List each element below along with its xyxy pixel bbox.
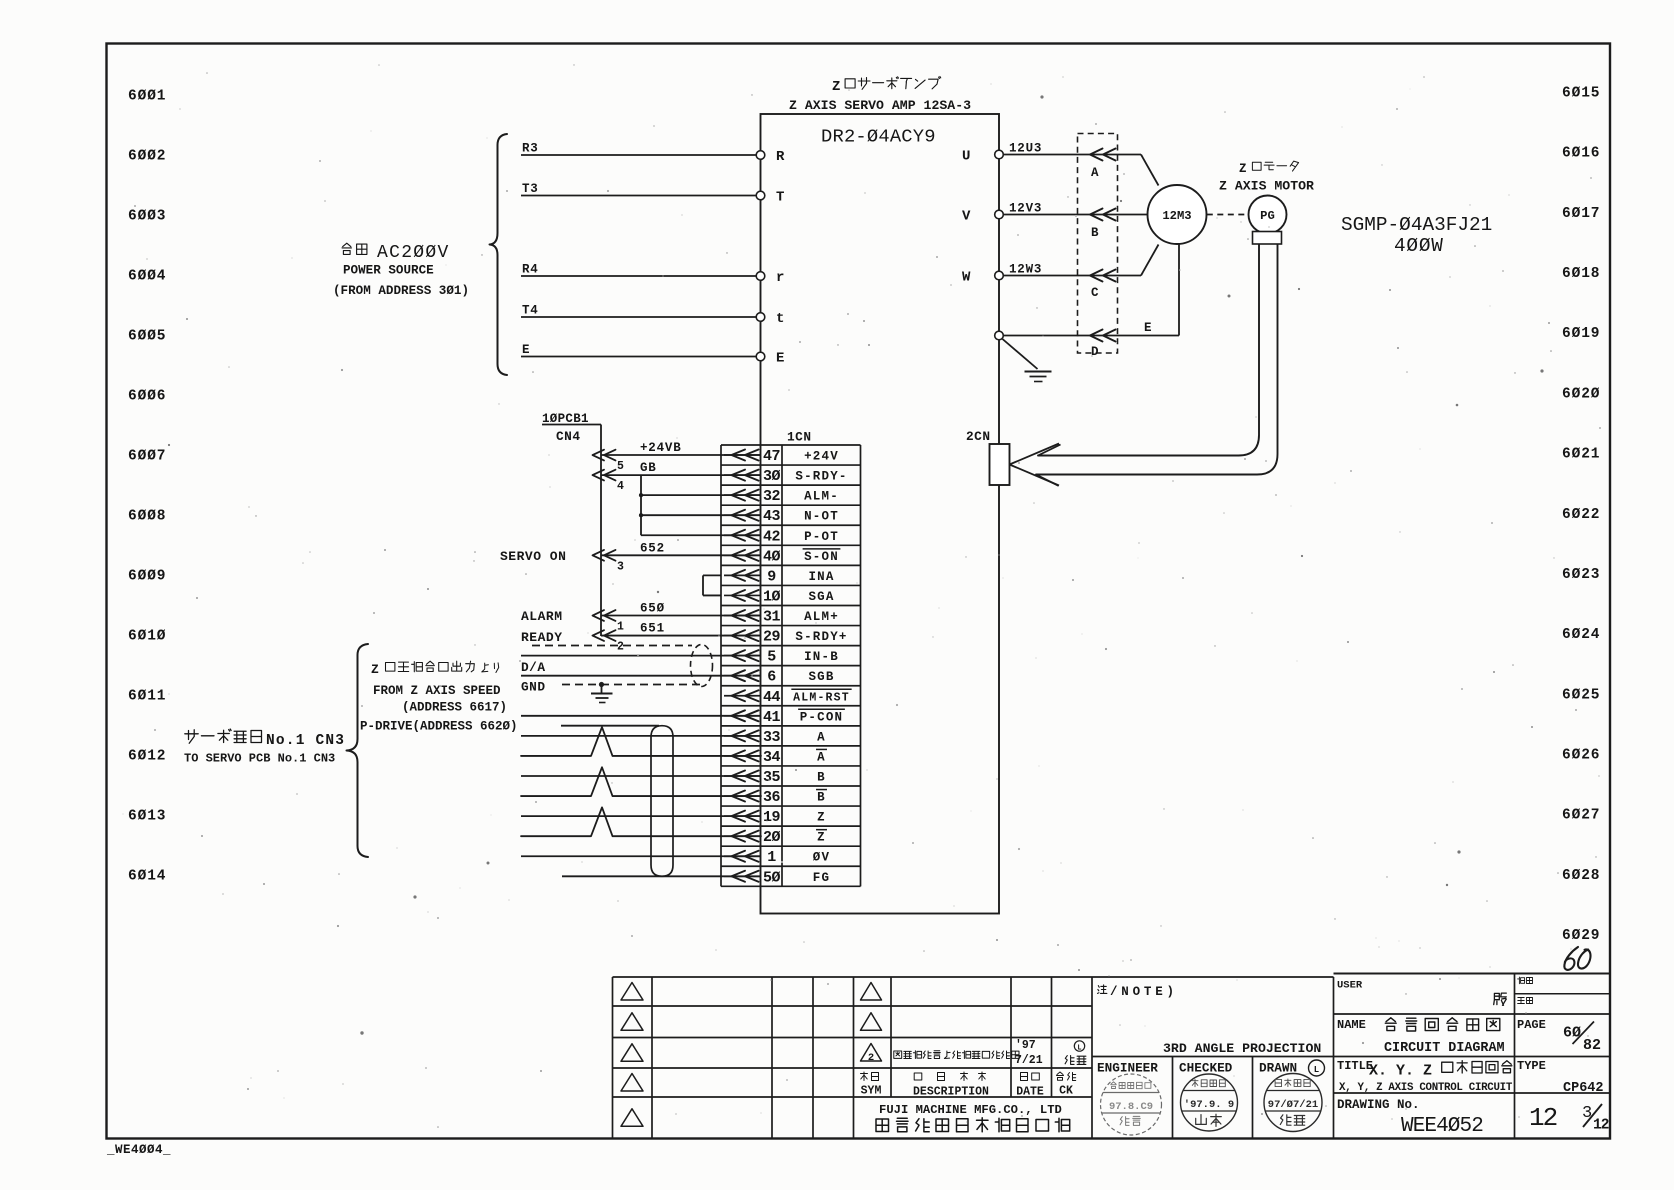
svg-text:R3: R3	[522, 142, 539, 156]
svg-text:No.1 CN3: No.1 CN3	[266, 733, 345, 749]
svg-text:6Ø23: 6Ø23	[1562, 567, 1600, 583]
svg-text:6Ø24: 6Ø24	[1562, 627, 1600, 643]
svg-text:5: 5	[617, 460, 624, 473]
svg-text:Z AXIS MOTOR: Z AXIS MOTOR	[1219, 179, 1314, 194]
svg-text:6Ø17: 6Ø17	[1562, 206, 1600, 222]
svg-text:6Ø16: 6Ø16	[1562, 146, 1600, 162]
svg-text:6Ø13: 6Ø13	[128, 809, 166, 825]
svg-text:651: 651	[640, 622, 665, 636]
svg-text:Z: Z	[817, 811, 826, 825]
svg-text:'97.9. 9: '97.9. 9	[1184, 1099, 1234, 1111]
svg-text:6ØØ3: 6ØØ3	[128, 209, 166, 225]
svg-text:T4: T4	[522, 304, 539, 318]
svg-text:TITLE: TITLE	[1337, 1059, 1373, 1073]
svg-text:A: A	[1091, 166, 1099, 180]
svg-text:/NOTE): /NOTE)	[1110, 985, 1178, 999]
svg-text:12W3: 12W3	[1009, 263, 1042, 277]
svg-text:12: 12	[1593, 1118, 1609, 1134]
svg-text:32: 32	[763, 488, 781, 505]
svg-text:S-RDY+: S-RDY+	[795, 630, 847, 644]
svg-text:97/Ø7/21: 97/Ø7/21	[1268, 1099, 1318, 1111]
svg-text:PAGE: PAGE	[1517, 1018, 1546, 1032]
svg-text:SYM: SYM	[861, 1085, 882, 1098]
svg-text:6Ø25: 6Ø25	[1562, 687, 1600, 703]
svg-text:97.8.C9: 97.8.C9	[1109, 1101, 1153, 1113]
svg-text:43: 43	[763, 508, 781, 525]
svg-text:6Ø18: 6Ø18	[1562, 266, 1600, 282]
svg-text:31: 31	[763, 609, 781, 626]
svg-text:9: 9	[767, 568, 776, 585]
svg-text:5: 5	[767, 649, 776, 666]
svg-text:47: 47	[763, 448, 780, 465]
svg-text:PG: PG	[1260, 209, 1275, 223]
svg-text:SGB: SGB	[808, 670, 834, 684]
svg-text:DATE: DATE	[1016, 1086, 1044, 1099]
svg-text:r: r	[776, 270, 784, 286]
svg-text:P-OT: P-OT	[804, 530, 839, 544]
svg-text:P-DRIVE(ADDRESS 662Ø): P-DRIVE(ADDRESS 662Ø)	[360, 720, 518, 734]
svg-text:READY: READY	[521, 630, 563, 645]
svg-text:Z AXIS SERVO AMP 12SA-3: Z AXIS SERVO AMP 12SA-3	[789, 98, 971, 113]
svg-text:TYPE: TYPE	[1517, 1059, 1546, 1073]
svg-text:GB: GB	[640, 461, 657, 475]
svg-text:X, Y, Z AXIS CONTROL CIRCUIT: X, Y, Z AXIS CONTROL CIRCUIT	[1339, 1082, 1513, 1094]
svg-text:1: 1	[617, 621, 624, 634]
svg-text:N-OT: N-OT	[804, 510, 839, 524]
svg-text:ØV: ØV	[813, 851, 830, 865]
svg-text:1: 1	[767, 849, 776, 866]
svg-text:Z: Z	[1239, 162, 1247, 176]
svg-text:2CN: 2CN	[966, 429, 991, 444]
svg-text:L: L	[1314, 1065, 1319, 1075]
svg-text:19: 19	[763, 809, 781, 826]
svg-text:D/A: D/A	[521, 660, 546, 675]
svg-text:6ØØ9: 6ØØ9	[128, 569, 166, 585]
svg-text:Z: Z	[817, 831, 826, 845]
svg-text:65Ø: 65Ø	[640, 602, 665, 616]
svg-text:6Ø12: 6Ø12	[128, 749, 166, 765]
svg-text:12: 12	[1529, 1103, 1557, 1133]
svg-text:6Ø26: 6Ø26	[1562, 747, 1600, 763]
svg-text:CK: CK	[1059, 1085, 1073, 1098]
svg-text:NAME: NAME	[1337, 1018, 1366, 1032]
svg-text:(ADDRESS 6617): (ADDRESS 6617)	[402, 701, 507, 715]
svg-text:TO SERVO PCB No.1 CN3: TO SERVO PCB No.1 CN3	[184, 752, 335, 766]
svg-text:6ØØ5: 6ØØ5	[128, 329, 166, 345]
svg-text:12U3: 12U3	[1009, 142, 1042, 156]
svg-text:CIRCUIT DIAGRAM: CIRCUIT DIAGRAM	[1384, 1041, 1505, 1056]
svg-text:6Ø28: 6Ø28	[1562, 868, 1600, 884]
svg-text:FUJI MACHINE MFG.CO., LTD: FUJI MACHINE MFG.CO., LTD	[879, 1103, 1062, 1117]
svg-text:12V3: 12V3	[1009, 202, 1042, 216]
svg-text:4: 4	[617, 480, 624, 493]
svg-text:+24V: +24V	[804, 450, 839, 464]
svg-text:42: 42	[763, 528, 781, 545]
svg-text:E: E	[1144, 321, 1152, 335]
svg-text:3: 3	[1582, 1104, 1592, 1123]
svg-text:V: V	[962, 209, 971, 225]
svg-text:2Ø: 2Ø	[763, 829, 781, 846]
svg-text:S-ON: S-ON	[804, 550, 839, 564]
svg-text:CP642: CP642	[1563, 1081, 1604, 1096]
svg-text:U: U	[962, 149, 970, 165]
svg-text:34: 34	[763, 749, 781, 766]
svg-text:6Ø1Ø: 6Ø1Ø	[128, 629, 166, 645]
svg-text:USER: USER	[1337, 980, 1363, 992]
svg-text:2: 2	[617, 641, 624, 654]
svg-text:B: B	[817, 770, 826, 784]
svg-text:35: 35	[763, 769, 781, 786]
svg-text:A: A	[817, 730, 826, 744]
svg-text:E: E	[776, 351, 784, 367]
svg-text:E: E	[522, 343, 530, 357]
svg-text:t: t	[776, 311, 784, 327]
svg-text:6Ø11: 6Ø11	[128, 689, 166, 705]
svg-text:ENGINEER: ENGINEER	[1097, 1061, 1158, 1076]
svg-text:CN4: CN4	[556, 429, 581, 444]
svg-text:6Ø15: 6Ø15	[1562, 86, 1600, 102]
svg-text:DRAWING No.: DRAWING No.	[1337, 1098, 1420, 1112]
svg-text:44: 44	[763, 689, 781, 706]
svg-text:P-CON: P-CON	[800, 710, 844, 724]
svg-text:B: B	[817, 791, 826, 805]
svg-text:652: 652	[640, 541, 665, 555]
svg-text:12M3: 12M3	[1162, 209, 1191, 223]
svg-text:6ØØ1: 6ØØ1	[128, 89, 166, 105]
svg-text:1CN: 1CN	[787, 430, 812, 445]
svg-text:SERVO ON: SERVO ON	[500, 549, 566, 564]
svg-text:82: 82	[1583, 1037, 1601, 1054]
svg-text:6Ø27: 6Ø27	[1562, 808, 1600, 824]
svg-text:3RD ANGLE PROJECTION: 3RD ANGLE PROJECTION	[1163, 1041, 1321, 1056]
svg-text:WEE4Ø52: WEE4Ø52	[1401, 1115, 1483, 1138]
svg-text:A: A	[817, 750, 826, 764]
svg-text:41: 41	[763, 709, 781, 726]
svg-text:6Ø29: 6Ø29	[1562, 928, 1600, 944]
svg-text:3: 3	[617, 560, 624, 573]
svg-text:AC2ØØV: AC2ØØV	[377, 243, 450, 263]
svg-text:_WE4ØØ4_: _WE4ØØ4_	[106, 1143, 171, 1157]
svg-text:6Ø14: 6Ø14	[128, 869, 166, 885]
svg-text:2: 2	[868, 1052, 874, 1064]
svg-text:(FROM ADDRESS 3Ø1): (FROM ADDRESS 3Ø1)	[333, 284, 469, 298]
svg-text:CHECKED: CHECKED	[1179, 1061, 1233, 1076]
svg-text:INA: INA	[808, 570, 834, 584]
svg-text:D: D	[1091, 345, 1099, 359]
svg-text:X. Y. Z: X. Y. Z	[1369, 1063, 1432, 1080]
svg-text:GND: GND	[521, 680, 546, 695]
svg-text:29: 29	[763, 629, 781, 646]
svg-text:POWER SOURCE: POWER SOURCE	[343, 264, 434, 278]
svg-text:6: 6	[767, 669, 776, 686]
svg-text:ALM-RST: ALM-RST	[793, 691, 850, 704]
svg-text:ALM-: ALM-	[804, 490, 839, 504]
svg-text:FG: FG	[813, 871, 830, 885]
svg-text:C: C	[1091, 286, 1099, 300]
svg-text:6ØØ6: 6ØØ6	[128, 389, 166, 405]
svg-text:T3: T3	[522, 182, 539, 196]
svg-text:DESCRIPTION: DESCRIPTION	[913, 1086, 989, 1099]
svg-text:6Ø2Ø: 6Ø2Ø	[1562, 386, 1600, 402]
svg-text:R: R	[776, 149, 785, 165]
svg-text:ALARM: ALARM	[521, 609, 563, 624]
svg-text:4Ø: 4Ø	[763, 548, 781, 565]
svg-text:36: 36	[763, 789, 781, 806]
svg-text:6ØØ7: 6ØØ7	[128, 449, 166, 465]
svg-text:6Ø19: 6Ø19	[1562, 326, 1600, 342]
svg-text:1Ø: 1Ø	[763, 588, 781, 605]
svg-text:W: W	[962, 270, 971, 286]
svg-text:6Ø21: 6Ø21	[1562, 447, 1600, 463]
svg-text:IN-B: IN-B	[804, 650, 839, 664]
svg-text:+24VB: +24VB	[640, 441, 682, 455]
svg-text:6ØØ8: 6ØØ8	[128, 509, 166, 525]
svg-text:7/21: 7/21	[1015, 1054, 1043, 1067]
svg-text:L: L	[1077, 1045, 1081, 1053]
svg-text:ALM+: ALM+	[804, 610, 839, 624]
svg-text:T: T	[776, 190, 784, 206]
svg-text:'97: '97	[1015, 1039, 1036, 1052]
svg-text:6Ø22: 6Ø22	[1562, 507, 1600, 523]
svg-text:SGMP-Ø4A3FJ21: SGMP-Ø4A3FJ21	[1341, 214, 1492, 236]
svg-text:Z: Z	[371, 662, 379, 677]
svg-text:33: 33	[763, 729, 781, 746]
svg-text:FROM Z AXIS SPEED: FROM Z AXIS SPEED	[373, 684, 501, 698]
svg-text:S-RDY-: S-RDY-	[795, 470, 847, 484]
svg-text:Z: Z	[832, 79, 840, 95]
svg-text:5Ø: 5Ø	[763, 869, 781, 886]
svg-text:3Ø: 3Ø	[763, 468, 781, 485]
svg-text:SGA: SGA	[808, 590, 834, 604]
svg-text:R4: R4	[522, 263, 539, 277]
svg-text:B: B	[1091, 226, 1099, 240]
svg-text:4ØØW: 4ØØW	[1394, 235, 1444, 257]
svg-text:DR2-Ø4ACY9: DR2-Ø4ACY9	[821, 126, 936, 148]
svg-text:6ØØ2: 6ØØ2	[128, 149, 166, 165]
svg-text:6ØØ4: 6ØØ4	[128, 269, 166, 285]
